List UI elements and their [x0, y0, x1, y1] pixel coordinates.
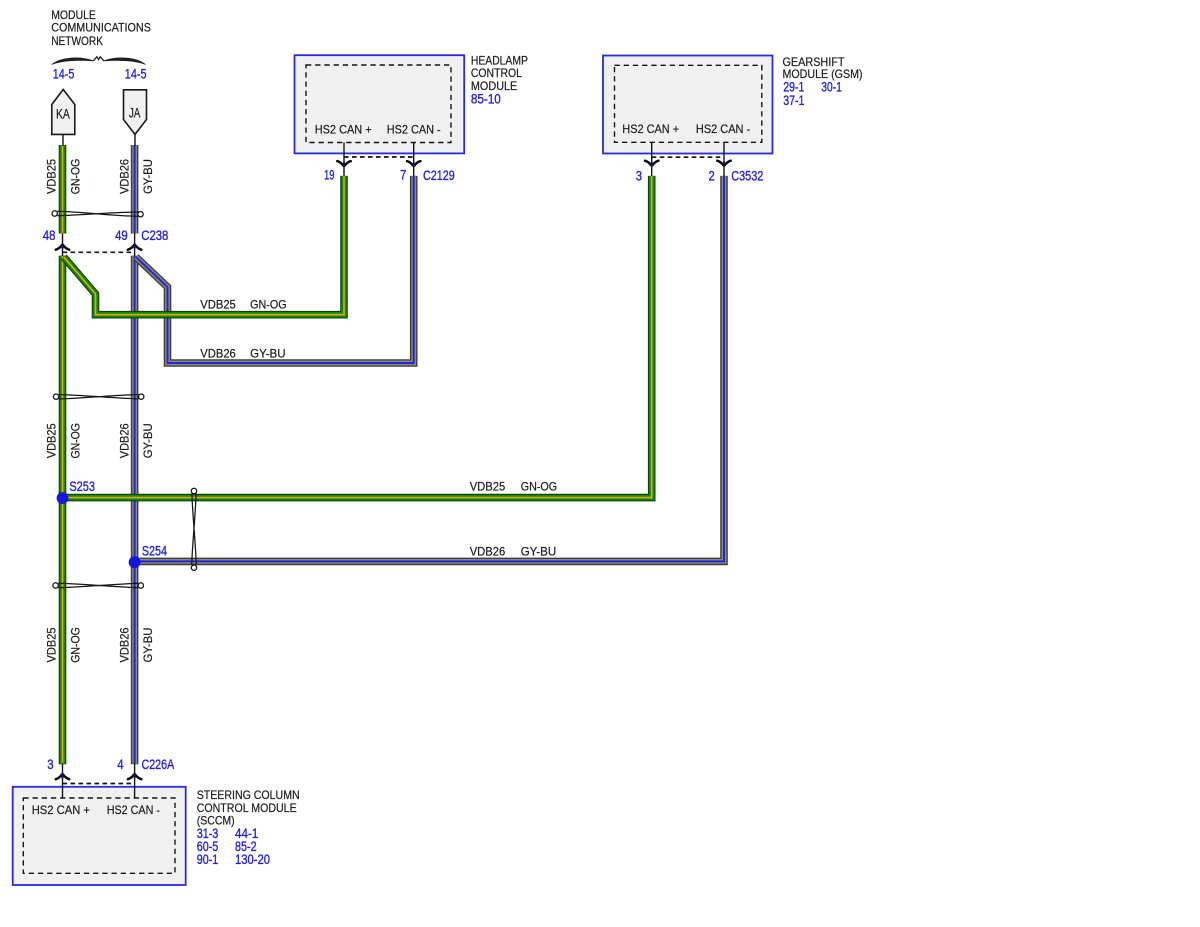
svg-text:HS2 CAN +: HS2 CAN +	[32, 803, 90, 817]
connector C226A pin shaft (pin 3)	[62, 763, 64, 797]
wire VDB25 GN-OG main vertical lower segment (C238 to SCCM pin 3)	[59, 256, 67, 765]
connector C2129 arrow pin 19	[337, 160, 350, 168]
wire VDB26 GY-BU from splice S254 to gearshift module pin 2	[135, 176, 724, 562]
svg-text:7: 7	[400, 167, 406, 183]
svg-text:14-5: 14-5	[125, 66, 147, 82]
svg-text:HS2 CAN -: HS2 CAN -	[387, 123, 441, 137]
svg-text:VDB25: VDB25	[44, 423, 58, 458]
svg-text:HS2 CAN -: HS2 CAN -	[696, 122, 750, 136]
connector C226A dashed link	[63, 783, 135, 785]
brace over 14-5 references (left leaf)	[52, 58, 94, 64]
svg-text:JA: JA	[129, 105, 141, 121]
SCCM module name	[197, 788, 300, 828]
connector C2129 pin shaft (pin 7)	[413, 143, 415, 176]
svg-text:GN-OG: GN-OG	[68, 627, 82, 663]
label MODULE COMMUNICATIONS NETWORK	[51, 8, 151, 48]
svg-text:KA: KA	[56, 106, 70, 122]
headlamp control module box	[295, 55, 465, 153]
wire VDB26 GY-BU main vertical lower segment (C238 to SCCM pin 4)	[131, 256, 139, 765]
svg-text:C238: C238	[141, 227, 168, 243]
svg-text:S254: S254	[142, 543, 167, 559]
svg-text:19: 19	[324, 167, 334, 183]
headlamp control module inner dashed boundary	[306, 65, 451, 143]
connector C2129 arrow pin 7	[407, 160, 420, 168]
svg-text:GY-BU: GY-BU	[141, 423, 155, 458]
connector C2129 pin shaft (pin 19)	[343, 143, 345, 176]
svg-text:2: 2	[709, 167, 715, 183]
connector C238 arrow pin 48	[56, 243, 69, 251]
svg-text:S253: S253	[69, 478, 95, 494]
wire VDB26 GY-BU main vertical upper segment (JA to C238)	[131, 145, 139, 234]
svg-text:COMMUNICATIONS: COMMUNICATIONS	[51, 21, 151, 35]
svg-text:3: 3	[47, 756, 53, 772]
in-line connector KA pentagon	[52, 90, 75, 135]
svg-text:VDB25: VDB25	[44, 159, 58, 194]
svg-text:4: 4	[117, 756, 123, 772]
steering column control module inner dashed boundary	[23, 798, 175, 873]
svg-text:C2129: C2129	[423, 167, 455, 183]
connector C3532 arrow pin 3	[645, 160, 658, 168]
gearshift module inner dashed boundary	[615, 65, 762, 142]
svg-text:NETWORK: NETWORK	[51, 34, 103, 48]
connector C238 dashed link	[63, 251, 135, 253]
in-line connector JA shaft	[134, 134, 136, 146]
svg-text:GN-OG: GN-OG	[68, 159, 82, 195]
steering column control module box	[13, 787, 186, 885]
svg-text:48: 48	[43, 227, 56, 243]
svg-text:VDB26: VDB26	[118, 627, 132, 662]
svg-text:30-1: 30-1	[821, 79, 842, 95]
svg-text:C226A: C226A	[142, 756, 175, 772]
svg-text:GY-BU: GY-BU	[141, 628, 155, 663]
brace over 14-5 references (right leaf)	[104, 58, 145, 64]
wire VDB25 GN-OG branch from C238 to headlamp module pin 19	[64, 176, 344, 315]
svg-text:VDB25: VDB25	[470, 480, 506, 494]
brace center notch	[93, 57, 104, 61]
connector C238 pin shaft (pin 49)	[134, 233, 136, 256]
svg-text:HS2 CAN +: HS2 CAN +	[622, 122, 679, 136]
wire VDB26 GY-BU branch from C238 to headlamp module pin 7	[136, 176, 414, 363]
svg-text:VDB26: VDB26	[470, 544, 506, 558]
connector C3532 pin shaft (pin 3)	[651, 143, 653, 177]
SCCM references	[197, 825, 270, 867]
splice S253	[57, 492, 69, 504]
svg-text:GN-OG: GN-OG	[250, 297, 287, 311]
svg-text:14-5: 14-5	[53, 66, 75, 82]
twisted-pair symbol across VDB25/VDB26 mid run	[53, 394, 144, 399]
in-line connector JA pentagon	[124, 90, 147, 135]
svg-text:37-1: 37-1	[783, 92, 804, 108]
wire VDB25 GN-OG main vertical upper segment (KA to C238)	[59, 145, 67, 234]
svg-text:GN-OG: GN-OG	[68, 423, 82, 459]
connector C3532 dashed link	[652, 156, 724, 158]
connector C226A arrow pin 4	[128, 772, 141, 780]
twisted-pair symbol (vertical) across the two horizontal runs to GSM	[191, 488, 196, 570]
svg-text:HS2 CAN +: HS2 CAN +	[315, 123, 372, 137]
connector C3532 pin shaft (pin 2)	[723, 143, 725, 177]
connector C238 pin shaft (pin 48)	[62, 233, 64, 256]
connector C226A arrow pin 3	[56, 772, 69, 780]
svg-text:GY-BU: GY-BU	[250, 346, 286, 360]
svg-text:130-20: 130-20	[235, 851, 270, 867]
connector C3532 arrow pin 2	[717, 160, 730, 168]
gearshift module references	[783, 79, 842, 108]
svg-text:VDB26: VDB26	[200, 346, 236, 360]
gearshift module name	[783, 55, 863, 81]
twisted-pair symbol across VDB25/VDB26 above SCCM	[53, 583, 144, 588]
svg-text:HS2 CAN -: HS2 CAN -	[107, 803, 160, 817]
gearshift module box	[603, 56, 773, 154]
connector C226A pin shaft (pin 4)	[134, 763, 136, 797]
headlamp module name	[471, 54, 528, 93]
wire VDB25 GN-OG from splice S253 to gearshift module pin 3	[63, 176, 652, 498]
svg-text:90-1: 90-1	[197, 851, 219, 867]
svg-text:VDB25: VDB25	[200, 297, 236, 311]
svg-text:GY-BU: GY-BU	[141, 159, 155, 194]
svg-text:VDB26: VDB26	[118, 423, 132, 458]
svg-text:85-10: 85-10	[471, 91, 501, 107]
svg-text:C3532: C3532	[731, 167, 763, 183]
twisted-pair symbol across VDB25/VDB26 above C238	[52, 211, 143, 217]
svg-text:VDB26: VDB26	[118, 159, 132, 194]
connector C238 arrow pin 49	[128, 243, 141, 251]
svg-text:49: 49	[115, 227, 128, 243]
svg-text:VDB25: VDB25	[44, 627, 58, 662]
svg-text:GN-OG: GN-OG	[521, 480, 558, 494]
svg-text:GY-BU: GY-BU	[521, 544, 557, 558]
splice S254	[129, 556, 141, 568]
in-line connector KA shaft	[62, 134, 64, 146]
svg-text:3: 3	[636, 167, 642, 183]
connector C2129 dashed link	[344, 156, 414, 158]
